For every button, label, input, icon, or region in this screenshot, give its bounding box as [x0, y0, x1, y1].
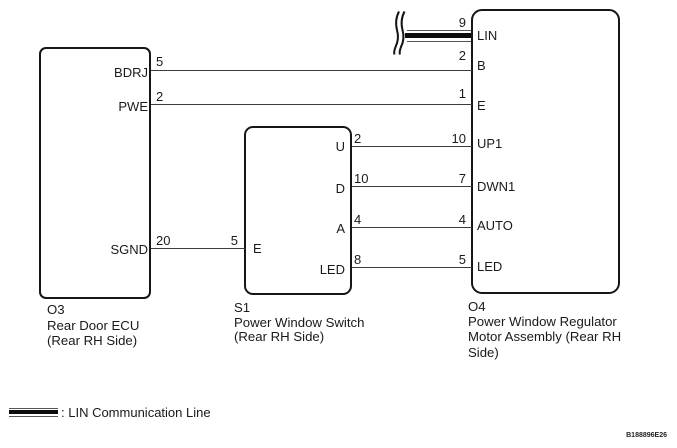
pin label E (O4)	[477, 99, 486, 112]
component S1 Power Window Switch box	[244, 126, 352, 295]
wire BDRJ to B	[151, 70, 472, 71]
wire SGND to E(S1)	[151, 248, 245, 249]
pin 2 (S1 U)	[354, 132, 361, 145]
pin 5 (O3 BDRJ)	[156, 55, 163, 68]
pin 2 (O4 B)	[459, 49, 466, 62]
pin 4 (O4 AUTO)	[459, 213, 466, 226]
component O3 Rear Door ECU box	[39, 47, 151, 299]
pin label BDRJ	[114, 66, 148, 79]
pin 10 (S1 D)	[354, 172, 368, 185]
pin label U	[336, 140, 345, 153]
pin label UP1	[477, 137, 502, 150]
component O4 Power Window Regulator Motor Assembly box	[471, 9, 620, 294]
wire D to DWN1	[352, 186, 472, 187]
wire break symbol on LIN line	[390, 8, 414, 60]
pin 5 (S1 E)	[231, 234, 238, 247]
caption O4	[468, 300, 486, 314]
pin 5 (O4 LED)	[459, 253, 466, 266]
caption S1	[234, 301, 250, 315]
pin 7 (O4 DWN1)	[459, 172, 466, 185]
pin label DWN1	[477, 180, 515, 193]
pin 1 (O4 E)	[459, 87, 466, 100]
pin label LED (S1)	[320, 263, 345, 276]
wire LIN communication line (thick)	[407, 30, 471, 31]
pin label LIN	[477, 29, 497, 42]
pin 4 (S1 A)	[354, 213, 361, 226]
pin label D	[336, 182, 345, 195]
pin label SGND	[110, 243, 148, 256]
drawing code	[626, 432, 667, 439]
wire U to UP1	[352, 146, 472, 147]
pin 10 (O4 UP1)	[452, 132, 466, 145]
legend text	[61, 406, 211, 419]
pin 20 (O3 SGND)	[156, 234, 170, 247]
wire LED to LED	[352, 267, 472, 268]
wire A to AUTO	[352, 227, 472, 228]
pin label AUTO	[477, 219, 513, 232]
pin label PWE	[118, 100, 148, 113]
pin label LED (O4)	[477, 260, 502, 273]
pin label E (S1)	[253, 242, 262, 255]
pin label B	[477, 59, 486, 72]
wire PWE to E	[151, 104, 472, 105]
pin 8 (S1 LED)	[354, 253, 361, 266]
legend LIN line symbol	[9, 408, 58, 409]
pin 9 (O4 LIN)	[459, 16, 466, 29]
caption O3	[47, 303, 65, 317]
pin 2 (O3 PWE)	[156, 90, 163, 103]
pin label A	[336, 222, 345, 235]
